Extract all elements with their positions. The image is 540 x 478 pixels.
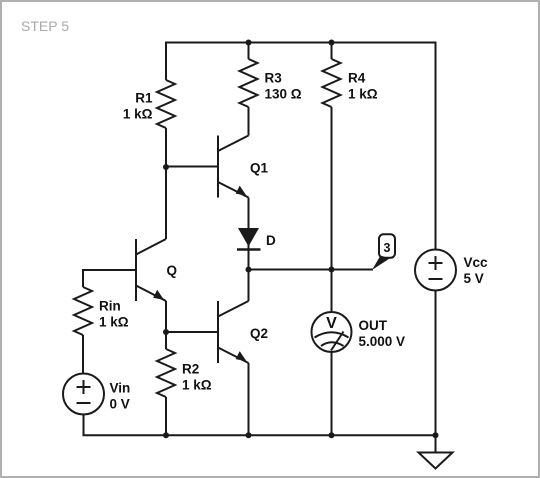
svg-text:Vin: Vin [110, 381, 131, 396]
svg-text:0 V: 0 V [110, 397, 130, 412]
svg-text:Rin: Rin [99, 299, 121, 314]
svg-text:OUT: OUT [359, 318, 388, 333]
svg-text:1 kΩ: 1 kΩ [348, 87, 378, 102]
svg-text:V: V [326, 315, 337, 332]
svg-text:Q: Q [167, 263, 178, 278]
svg-text:5 V: 5 V [464, 271, 484, 286]
svg-text:R1: R1 [135, 91, 153, 106]
svg-text:R3: R3 [265, 71, 283, 86]
svg-text:R4: R4 [348, 71, 366, 86]
svg-text:130 Ω: 130 Ω [265, 87, 302, 102]
svg-text:3: 3 [384, 241, 391, 255]
svg-text:1 kΩ: 1 kΩ [182, 378, 212, 393]
svg-text:D: D [266, 233, 276, 248]
svg-text:Vcc: Vcc [464, 255, 489, 270]
svg-text:STEP 5: STEP 5 [21, 18, 69, 34]
svg-text:Q1: Q1 [250, 160, 269, 175]
svg-text:R2: R2 [182, 362, 199, 377]
svg-text:Q2: Q2 [250, 326, 268, 341]
svg-text:5.000 V: 5.000 V [359, 334, 406, 349]
svg-text:1 kΩ: 1 kΩ [99, 315, 129, 330]
svg-text:1 kΩ: 1 kΩ [123, 107, 153, 122]
